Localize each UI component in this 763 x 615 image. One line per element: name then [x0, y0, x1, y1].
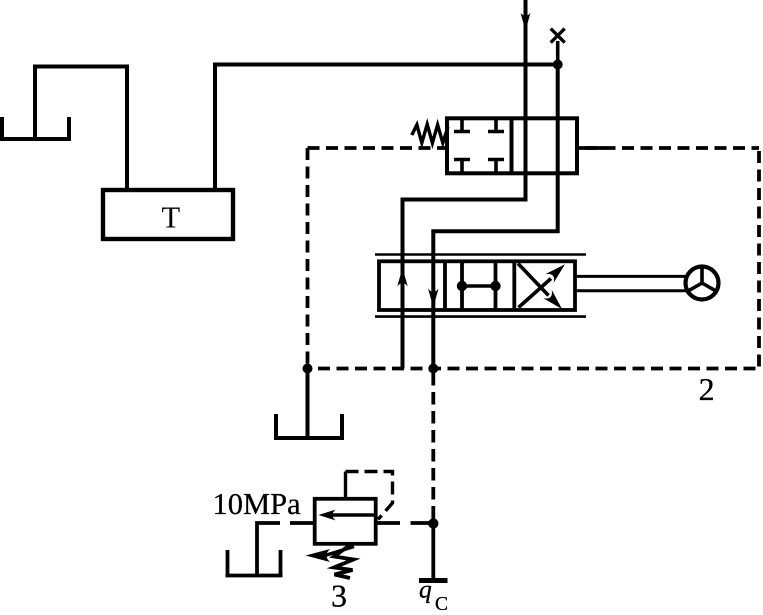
directional valve divider left — [443, 261, 447, 310]
center position port line B — [494, 261, 498, 310]
center position dot B — [490, 281, 500, 291]
valve 4 body (2-position pilot valve) — [447, 118, 577, 173]
wire: valve 4 right port to dashed box — [577, 146, 604, 150]
wire: X branch through valve to B port — [433, 65, 557, 369]
dashed enclosure box 2 (left edge) — [306, 148, 310, 369]
crossed position diagonal down-right — [518, 264, 549, 296]
plugged port symbol X — [551, 29, 565, 43]
wire: relief valve inlet line — [376, 521, 434, 525]
relief valve adjustment arrowhead — [306, 549, 331, 562]
junction dot control line — [428, 364, 438, 374]
wire: pump supply line P with branch to valve A port — [403, 0, 526, 369]
wire: right riser from tank box T — [215, 65, 555, 191]
actuator rod lower line — [575, 289, 687, 292]
relief valve internal flow line — [332, 513, 376, 516]
junction dot qC — [428, 518, 438, 528]
wire: down to flow source — [431, 524, 435, 581]
svg-text:C: C — [435, 594, 448, 615]
valve 3way bottom rail — [375, 315, 586, 318]
valve 4 blocked port top-right — [488, 118, 504, 132]
valve 4 return spring — [412, 124, 448, 143]
wire: dashed control line down — [431, 373, 435, 524]
arrow: supply flow downward — [521, 13, 531, 31]
crossed position diagonal up-right — [519, 279, 552, 308]
center position connecting bar — [462, 284, 496, 287]
crossed position arrowhead down-right — [543, 290, 562, 309]
svg-text:T: T — [161, 201, 180, 235]
svg-text:q: q — [419, 575, 432, 604]
actuator rod upper line — [575, 275, 687, 278]
wire: top header — [213, 63, 558, 67]
relief valve spring — [334, 545, 354, 578]
arrow: upward flow in valve left position — [397, 268, 408, 287]
tank T3 — [226, 550, 283, 576]
wire: left header to tank — [35, 67, 127, 191]
directional valve body — [379, 261, 575, 310]
dashed enclosure box 2 (bottom edge) — [308, 367, 760, 371]
center position port line A — [460, 261, 464, 310]
arrow: downward flow in valve left position — [428, 289, 439, 308]
tank T1 (top left) — [0, 117, 71, 139]
wire: relief valve outlet to tank T3 — [257, 523, 315, 576]
relief valve pilot stub — [344, 472, 347, 500]
center position dot A — [457, 281, 467, 291]
valve 3way top rail — [375, 253, 586, 256]
relief valve internal arrowhead — [319, 510, 336, 521]
flow source bar qC — [419, 578, 448, 583]
svg-text:2: 2 — [699, 371, 715, 407]
valve 4 blocked port bottom-left — [454, 160, 470, 174]
junction dot top header — [553, 60, 563, 70]
handwheel — [686, 267, 719, 300]
valve 4 blocked port bottom-right — [488, 160, 504, 174]
junction dot at dashed box corner — [303, 364, 313, 374]
valve 4 divider — [510, 118, 514, 173]
crossed position arrowhead up-right — [545, 264, 565, 283]
tank T2 — [274, 414, 344, 438]
dashed enclosure box 2 (top edge) — [308, 146, 760, 150]
directional valve divider right — [512, 261, 516, 310]
relief valve 3 body — [315, 499, 376, 544]
relief valve adjustment arrow shaft — [325, 547, 354, 556]
svg-text:3: 3 — [331, 578, 347, 614]
wire: drop to tank T2 — [306, 369, 310, 439]
valve 4 blocked port top-left — [454, 118, 470, 132]
svg-text:10MPa: 10MPa — [213, 487, 302, 521]
relief valve pilot dashed loop — [346, 472, 393, 520]
wire: X branch stub — [556, 41, 560, 65]
dashed enclosure box 2 (right edge) — [757, 148, 761, 369]
tank box T — [103, 190, 233, 239]
